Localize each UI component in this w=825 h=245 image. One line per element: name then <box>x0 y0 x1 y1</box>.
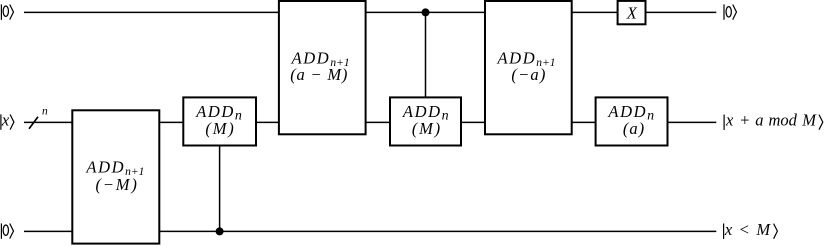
control line from q0 down to gate ADDn(M) second <box>425 12 427 97</box>
ket label |x + a mod M> output q1 <box>724 110 823 129</box>
svg-text:(−a): (−a) <box>511 65 546 84</box>
wire q2 (bottom qubit line) <box>24 230 716 232</box>
ket label |x < M> output q2 <box>724 220 778 239</box>
svg-text:x: x <box>725 110 734 129</box>
gate ADD_{n+1}(a-M) spanning q0,q1 <box>279 1 366 134</box>
gate X on q0 <box>618 1 646 24</box>
svg-text:(a − M): (a − M) <box>290 65 348 84</box>
svg-text:X: X <box>626 3 638 22</box>
gate ADD_n(M) first, on q1 <box>183 97 256 145</box>
svg-text:n: n <box>42 106 48 118</box>
gate ADD_{n+1}(-M) spanning q1,q2 <box>72 110 159 243</box>
control line from gate ADDn(M) to q2 <box>219 146 221 232</box>
ket label |0> output q0 <box>724 4 737 19</box>
control dot on q0 <box>422 8 430 16</box>
gate ADD_{n+1}(-a) spanning q0,q1 <box>485 1 572 134</box>
svg-text:x: x <box>1 110 10 129</box>
svg-text:x: x <box>724 220 733 239</box>
svg-text:(M): (M) <box>412 119 442 138</box>
svg-text:+: + <box>739 110 750 129</box>
svg-text:<: < <box>739 220 750 239</box>
svg-text:a: a <box>755 110 763 129</box>
wire q0 (top qubit line) <box>24 11 716 13</box>
svg-text:(a): (a) <box>623 119 645 138</box>
gate ADD_n(a) on q1 <box>596 97 668 145</box>
ket label |x> input q1 <box>1 110 14 129</box>
ket label |0> input q2 <box>1 223 13 238</box>
svg-text:mod: mod <box>769 110 798 129</box>
svg-text:M: M <box>801 110 817 129</box>
wire q1 (middle qubit line) <box>24 121 716 123</box>
svg-text:M: M <box>755 220 771 239</box>
gate ADD_n(M) second, on q1 <box>390 97 461 145</box>
control dot on q2 <box>216 227 224 235</box>
ket label |0> input q0 <box>1 4 13 19</box>
svg-text:(M): (M) <box>205 119 235 138</box>
bus slash with n label on q1 <box>29 106 48 129</box>
svg-text:(−M): (−M) <box>96 175 139 194</box>
